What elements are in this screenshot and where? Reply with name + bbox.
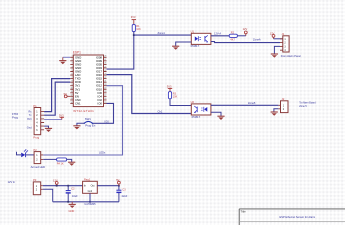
svg-text:WT32-ETH01: WT32-ETH01 [73,109,94,113]
wire regulator out [97,185,119,187]
svg-text:PC817: PC817 [191,44,200,48]
inner transistor [194,106,197,113]
capacitor C3 22uF [116,186,127,202]
wire ESP to opto U2 [107,75,192,114]
svg-text:Out: Out [91,185,95,188]
connector J2 [278,97,316,112]
svg-text:22: 22 [104,77,106,79]
svg-text:7: 7 [72,77,73,79]
svg-text:12V In: 12V In [8,180,16,184]
optocoupler U2 PC817 [191,100,211,119]
svg-text:3V3: 3V3 [27,118,32,121]
connector P1 FTDI [12,104,44,140]
svg-text:23: 23 [104,73,106,75]
power 3V3 at FTDI [59,113,64,119]
resistor R2 4K7 [229,31,237,41]
svg-text:12: 12 [70,95,72,97]
wire R4 to ground [67,159,72,162]
ESP1 left pin names [75,55,81,105]
wire 12V rail [43,185,83,187]
svg-text:10uF: 10uF [72,195,78,198]
svg-text:P2: P2 [34,148,38,152]
svg-text:Zone1: Zone1 [158,31,166,35]
svg-text:3V3: 3V3 [131,15,136,19]
junction C2 bottom [67,201,69,203]
svg-text:P1: P1 [33,104,37,108]
svg-text:26: 26 [104,63,106,65]
svg-text:GND: GND [69,209,75,213]
svg-text:15: 15 [104,102,106,104]
svg-text:IO0: IO0 [105,119,110,123]
svg-text:4: 4 [72,66,73,68]
optocoupler U1 PC817 [191,30,211,48]
svg-text:27: 27 [104,59,106,61]
capacitor C2 10uF [66,186,78,202]
svg-text:10: 10 [70,88,72,90]
svg-text:Prog En: Prog En [85,123,96,127]
svg-text:ESP Ethernet Sensor for Alarm: ESP Ethernet Sensor for Alarm [280,215,316,219]
ESP1 right pin stubs [104,57,107,103]
svg-text:3: 3 [72,63,73,65]
ESP1 right pin names [96,55,103,105]
svg-text:Gnd: Gnd [27,127,32,130]
ground at U1 [172,46,179,50]
ground rail [53,201,119,203]
svg-text:U1: U1 [191,30,195,34]
wire regulator gnd [89,193,91,202]
svg-text:17: 17 [104,95,106,97]
svg-text:R4 1K: R4 1K [57,163,64,166]
power 12V at R2 [243,27,248,36]
svg-text:5: 5 [72,70,73,72]
svg-text:P3: P3 [33,178,37,182]
wire R1 down to ESP pin [107,32,134,70]
svg-text:25: 25 [104,66,106,68]
ground at ESP GND pin [59,57,70,64]
junction R1/Zone1 [133,34,135,36]
inner transistor [205,35,208,42]
power 3V3 at R3 [167,84,172,91]
svg-text:19: 19 [104,88,106,90]
svg-text:18: 18 [104,91,106,93]
svg-text:Gnd: Gnd [88,190,93,193]
svg-text:8: 8 [72,80,73,82]
junction out [118,185,120,187]
wire U1 to R2 [211,35,229,37]
svg-text:LEDs: LEDs [99,151,106,155]
svg-text:Prog: Prog [12,115,18,119]
svg-text:28: 28 [104,56,106,58]
svg-text:14: 14 [70,102,72,104]
svg-text:11: 11 [71,91,73,93]
svg-text:Reg1: Reg1 [84,178,91,182]
resistor R3 10K [168,92,177,99]
switch SW1 [84,117,96,128]
ground at switch [73,126,80,130]
svg-text:12V: 12V [243,27,248,31]
ESP1 pin numbers [70,56,72,104]
resistor R1 10K [132,24,141,31]
inner LED [201,107,207,112]
connector J4 [31,148,45,169]
svg-text:Armed LED: Armed LED [31,165,45,169]
svg-text:PC817: PC817 [192,115,201,119]
regulator Reg1 [83,178,98,206]
svg-text:Zone 5: Zone 5 [299,105,307,108]
wire FTDI gnd [44,126,48,128]
svg-text:22uF: 22uF [122,195,128,198]
ground at J1 [271,54,278,58]
svg-text:24: 24 [104,70,106,72]
svg-text:9: 9 [72,84,73,86]
LED D1 [17,149,35,157]
svg-text:From Alarm Panel: From Alarm Panel [281,55,301,58]
power 5V at ESP [64,92,71,98]
svg-text:6: 6 [72,73,73,75]
module ESP1 WT32-ETH01 [73,51,104,113]
junction C2 top [67,185,69,187]
svg-text:3V3: 3V3 [59,113,64,117]
wire R2 to 12V [237,35,245,37]
wire U1 emitter to J1 [211,42,280,43]
power 3V3 at R1 [131,15,136,24]
connector J3 [33,178,43,195]
svg-text:IO0: IO0 [97,101,102,105]
svg-text:21: 21 [104,80,106,82]
svg-text:16: 16 [104,98,106,100]
wire 12V to J1 pin1 [274,38,283,40]
svg-text:1: 1 [72,56,73,58]
svg-text:20: 20 [104,84,106,86]
svg-text:Zone5: Zone5 [248,101,256,105]
inner LED [195,36,201,41]
wire J4 to R4 [43,158,56,160]
svg-text:SW1: SW1 [85,117,92,121]
wire Zone1 to opto U1 [134,34,192,36]
power 12V at J1 [270,31,275,39]
ground at U2 [217,116,224,120]
svg-text:CN1: CN1 [75,101,81,105]
wire FTDI 3V3 [44,119,62,121]
wire TXD to FTDI [44,79,70,112]
svg-text:Title: Title [241,210,247,214]
svg-text:ESP1: ESP1 [73,51,81,55]
wire J1 gnd pins [274,46,280,54]
wire IO0 to switch [93,103,114,123]
wire U2 to ground [211,112,221,116]
svg-text:10K: 10K [173,96,178,99]
connector J1 [280,32,301,58]
svg-text:Ch1: Ch1 [158,110,163,114]
svg-text:13: 13 [70,98,72,100]
svg-text:ZoneA: ZoneA [253,38,261,42]
svg-text:3V3: 3V3 [167,84,172,88]
junction reg gnd [89,201,91,203]
ESP1 left pin stubs [70,57,73,103]
svg-text:UA78M05: UA78M05 [84,203,96,206]
wire RXD to FTDI [44,82,70,115]
svg-text:2: 2 [72,59,73,61]
ground at J2 [271,112,278,116]
wire Zone5 to J2 [211,104,279,106]
svg-text:Prog: Prog [33,136,39,140]
ground GND symbol [69,202,76,213]
resistor R4 1K [57,158,67,166]
junction 12V rail [56,185,58,187]
svg-text:12V-A: 12V-A [214,31,221,35]
wire LEDs net [43,86,122,155]
ground at R4 [68,162,75,166]
power 12V at rail [53,178,58,185]
power 5V at out [116,178,120,186]
wire U1 cathode to ground [176,42,192,46]
wire R3 to opto U2 [170,99,191,106]
wire switch to ground [77,123,84,126]
svg-text:U2: U2 [191,100,195,104]
svg-text:4K7: 4K7 [230,39,235,42]
ground at FTDI [45,128,52,132]
wire J3 pin2 down [43,189,53,202]
svg-text:10K: 10K [136,28,141,31]
wire J2 gnd [274,109,279,112]
